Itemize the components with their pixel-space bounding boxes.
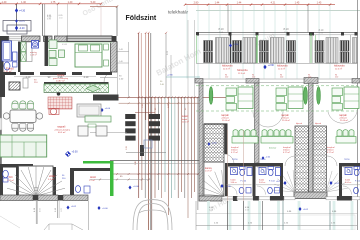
- svg-text:nappali: nappali: [281, 114, 289, 117]
- svg-text:4.17 m²: 4.17 m²: [283, 151, 290, 154]
- svg-text:2.2 m²: 2.2 m²: [89, 179, 95, 182]
- svg-text:étkező: étkező: [327, 149, 334, 152]
- svg-text:8.10: 8.10: [319, 29, 324, 32]
- svg-text:3.04 m²: 3.04 m²: [345, 181, 352, 184]
- svg-text:hálószoba: hálószoba: [334, 66, 345, 68]
- svg-text:12.5 m²: 12.5 m²: [223, 67, 230, 70]
- svg-text:lépcső: lépcső: [296, 123, 303, 125]
- svg-text:+2.90: +2.90: [233, 44, 239, 46]
- svg-text:hálószoba: hálószoba: [237, 70, 248, 72]
- svg-text:1.20: 1.20: [126, 146, 128, 150]
- svg-text:Fürdő: Fürdő: [6, 67, 14, 71]
- svg-text:Földszint: Földszint: [126, 15, 157, 22]
- svg-text:21.00 m²: 21.00 m²: [340, 119, 348, 122]
- svg-text:bútorsor: bútorsor: [269, 147, 277, 150]
- svg-text:+0.00: +0.00: [133, 186, 139, 188]
- svg-text:210: 210: [308, 77, 311, 79]
- svg-text:terasz: terasz: [182, 115, 189, 118]
- svg-text:+0.00: +0.00: [105, 108, 111, 110]
- svg-text:kamra: kamra: [205, 167, 212, 170]
- svg-text:12.5 m²: 12.5 m²: [182, 120, 189, 123]
- svg-text:lépcső: lépcső: [315, 123, 322, 125]
- svg-text:nappali: nappali: [339, 114, 347, 117]
- svg-text:étkező: étkező: [231, 149, 238, 152]
- svg-text:tároló: tároló: [90, 176, 97, 179]
- svg-text:F 2.04: F 2.04: [241, 181, 248, 183]
- svg-text:+2.90: +2.90: [167, 75, 173, 77]
- svg-text:+étkező+konyha: +étkező+konyha: [54, 128, 71, 131]
- svg-text:210: 210: [280, 77, 283, 79]
- svg-text:4.21: 4.21: [271, 2, 276, 5]
- svg-text:-0.02: -0.02: [71, 206, 77, 208]
- svg-text:40.5 m²: 40.5 m²: [58, 131, 66, 134]
- svg-text:75/210: 75/210: [232, 159, 238, 161]
- svg-text:telekhatár: telekhatár: [168, 10, 189, 15]
- svg-text:+étkező: +étkező: [281, 117, 290, 120]
- svg-text:-4.20: -4.20: [19, 27, 25, 30]
- svg-text:2.80: 2.80: [194, 2, 199, 5]
- svg-text:1.18 m²: 1.18 m²: [30, 54, 37, 57]
- svg-text:hálószoba: hálószoba: [222, 66, 233, 68]
- svg-text:+0.00: +0.00: [225, 186, 231, 188]
- svg-text:14.87 m²: 14.87 m²: [56, 79, 65, 82]
- svg-text:1.41 m²: 1.41 m²: [4, 70, 12, 73]
- svg-text:1.32 m²: 1.32 m²: [7, 179, 14, 182]
- svg-text:5.2 m²: 5.2 m²: [48, 178, 54, 181]
- svg-text:+étkező: +étkező: [221, 117, 230, 120]
- svg-text:8.10: 8.10: [283, 27, 289, 31]
- svg-text:21.00 m²: 21.00 m²: [222, 119, 230, 122]
- svg-text:12.5 m²: 12.5 m²: [278, 67, 285, 70]
- svg-text:1.75: 1.75: [51, 1, 56, 4]
- svg-text:12.5 m²: 12.5 m²: [238, 72, 245, 75]
- svg-text:1.45: 1.45: [295, 2, 300, 5]
- svg-text:210: 210: [252, 77, 255, 79]
- svg-text:1.40: 1.40: [68, 1, 73, 4]
- svg-text:+0.00: +0.00: [102, 208, 108, 210]
- svg-text:8.10: 8.10: [218, 27, 224, 31]
- svg-text:WC: WC: [9, 175, 13, 179]
- svg-text:1.57 m²: 1.57 m²: [205, 170, 212, 173]
- svg-text:3.04 m²: 3.04 m²: [231, 181, 238, 184]
- svg-text:+2.90: +2.90: [268, 65, 275, 67]
- svg-text:1.45: 1.45: [317, 2, 322, 5]
- svg-text:-0.02: -0.02: [276, 181, 282, 183]
- svg-text:hálószoba: hálószoba: [277, 66, 288, 68]
- svg-text:75/210: 75/210: [260, 159, 266, 161]
- svg-text:-0.02: -0.02: [303, 209, 309, 211]
- svg-text:+0.00: +0.00: [212, 142, 218, 144]
- svg-text:F 2.04: F 2.04: [269, 181, 276, 183]
- svg-text:2.40: 2.40: [135, 161, 137, 165]
- svg-text:1.40: 1.40: [2, 1, 7, 4]
- svg-text:nappali: nappali: [57, 125, 66, 129]
- svg-text:21.00 m²: 21.00 m²: [282, 119, 290, 122]
- svg-text:+0.00: +0.00: [72, 151, 79, 154]
- svg-text:210: 210: [335, 77, 338, 79]
- svg-text:2.50: 2.50: [47, 18, 51, 20]
- svg-text:étkező: étkező: [283, 149, 290, 152]
- svg-text:+étkező: +étkező: [339, 117, 348, 120]
- svg-text:4.17 m²: 4.17 m²: [231, 151, 238, 154]
- svg-text:nappali: nappali: [221, 114, 229, 117]
- svg-text:+0.75: +0.75: [19, 21, 25, 23]
- svg-text:5.40: 5.40: [91, 1, 96, 4]
- svg-text:1.40: 1.40: [21, 1, 26, 4]
- svg-text:75/210: 75/210: [344, 159, 350, 161]
- svg-text:4.545: 4.545: [62, 44, 68, 46]
- svg-text:1.44: 1.44: [237, 2, 242, 5]
- svg-text:-0.02: -0.02: [334, 183, 340, 185]
- svg-text:F 2.04: F 2.04: [355, 181, 360, 183]
- svg-text:+4.30: +4.30: [19, 10, 26, 13]
- svg-text:2.50: 2.50: [59, 18, 63, 20]
- svg-text:előtér: előtér: [49, 174, 56, 178]
- svg-text:210: 210: [225, 77, 228, 79]
- svg-text:12.5 m²: 12.5 m²: [335, 67, 342, 70]
- svg-text:3.04 m²: 3.04 m²: [259, 181, 266, 184]
- svg-text:1.44: 1.44: [215, 2, 220, 5]
- svg-text:4.17 m²: 4.17 m²: [327, 151, 334, 154]
- svg-text:fedett: fedett: [182, 118, 188, 121]
